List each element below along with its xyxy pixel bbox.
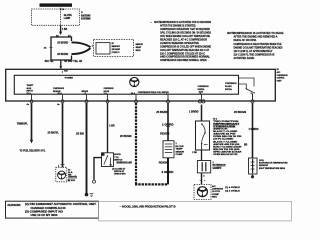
hood switch text — [114, 154, 132, 164]
wire 1 BK with arrow — [59, 25, 62, 35]
wire 25 BK/YL to horn — [62, 103, 64, 167]
pin 10 — [61, 8, 65, 11]
annotation: A/C compressor control unit — [277, 69, 288, 82]
svg-text:25 BK/RD: 25 BK/RD — [57, 54, 68, 56]
receiver drier — [197, 161, 210, 173]
svg-text:SEAT: SEAT — [136, 46, 142, 49]
A/C pressure temperature switch — [196, 121, 210, 150]
connector labels 41 / 45 — [56, 35, 71, 38]
svg-text:TO FUEL DELIVERY SYS.: TO FUEL DELIVERY SYS. — [20, 151, 46, 153]
receiver drier text — [213, 162, 226, 169]
svg-text:COIL: COIL — [259, 160, 265, 162]
pin 2 evap — [251, 93, 254, 103]
memory module text — [112, 43, 121, 54]
svg-text:25 BK/RD: 25 BK/RD — [57, 42, 68, 44]
label 1 GN/RD tick — [249, 128, 259, 131]
svg-text:1 BR: 1 BR — [109, 125, 115, 127]
connector below evap sensor — [251, 174, 254, 178]
svg-text:LAMP: LAMP — [64, 17, 71, 20]
svg-text:AND COMPRESSOR RESUMES NORMAL: AND COMPRESSOR RESUMES NORMAL — [160, 55, 210, 59]
svg-text:10 A: 10 A — [57, 92, 62, 95]
svg-text:USE 10 OF MY 0000: USE 10 OF MY 0000 — [31, 215, 59, 217]
hood switch note — [112, 167, 126, 175]
svg-text:120 C (248 F). AT APPROXIMATEL: 120 C (248 F). AT APPROXIMATELY — [234, 49, 273, 53]
svg-text:CHANGED COMP/BLAH 00: CHANGED COMP/BLAH 00 — [31, 207, 67, 210]
tick 4X on left bar — [44, 47, 53, 50]
svg-text:25 BK: 25 BK — [76, 134, 84, 136]
svg-text:COMP: COMP — [212, 194, 220, 196]
svg-text:ABOVE 435 PSI (30: ABOVE 435 PSI (30 — [213, 143, 240, 146]
svg-text:25 BK/GN: 25 BK/GN — [234, 112, 246, 114]
pin 30A — [131, 92, 138, 103]
svg-text:1 GN/RD: 1 GN/RD — [249, 129, 259, 131]
evaporator sensor text — [259, 160, 288, 170]
A/C compressor clutch — [194, 184, 211, 199]
wire to hood switch — [107, 103, 109, 153]
svg-text:AFTER THE ENGINE AND REMOVED A: AFTER THE ENGINE AND REMOVED A — [234, 35, 278, 39]
svg-text:HOOD: HOOD — [114, 154, 121, 156]
svg-text:13 A: 13 A — [26, 92, 31, 95]
svg-text:COMPRESSOR: COMPRESSOR — [277, 75, 288, 77]
svg-text:DIGITAL: DIGITAL — [198, 88, 206, 91]
svg-text:SENSOR: SENSOR — [176, 151, 185, 153]
annotation right of lamp box — [81, 12, 91, 20]
evaporator temperature sensor — [249, 158, 258, 174]
svg-text:ALM: ALM — [27, 87, 32, 90]
svg-text:CONTROL: CONTROL — [277, 78, 286, 80]
svg-text:AFTER THE ENGINE IS STARTED.: AFTER THE ENGINE IS STARTED. — [160, 24, 196, 28]
wire to pressure switch — [201, 105, 203, 121]
svg-text:COMPRESSOR: COMPRESSOR — [212, 189, 223, 191]
svg-text:MOD: MOD — [136, 50, 141, 52]
pin 1A — [104, 92, 109, 103]
label: lamp — [64, 15, 73, 20]
evaporator sensor wire — [252, 103, 254, 158]
svg-text:-- HOOD, 10/0, AIR PRODUCTION: -- HOOD, 10/0, AIR PRODUCTION PILOT B — [120, 205, 176, 208]
svg-text:TEMP: TEMP — [176, 149, 184, 151]
svg-text:ANTI-THEFT SYSTEM: ANTI-THEFT SYSTEM — [41, 4, 71, 8]
label compressor valve — [104, 88, 114, 93]
pin 10A — [57, 92, 64, 106]
wire below sensor — [167, 158, 169, 185]
svg-text:GLOVE: GLOVE — [64, 15, 73, 17]
label compressor digital — [198, 86, 209, 93]
pin 1 at band top — [59, 69, 68, 73]
memory inner module — [96, 43, 110, 54]
svg-text:BR: BR — [244, 144, 248, 146]
svg-text:TN/BK/PL: TN/BK/PL — [17, 124, 29, 126]
svg-text:25 BK/GN: 25 BK/GN — [120, 136, 132, 138]
pin 4 double connector — [198, 92, 205, 103]
wire junction to control unit — [60, 60, 62, 68]
hood temperature switch — [102, 153, 114, 167]
svg-text:45 BK/ YEL 4X: 45 BK/ YEL 4X — [64, 60, 83, 63]
svg-text:COMPRESSOR: COMPRESSOR — [225, 83, 237, 85]
pin 2 below switch — [192, 150, 201, 161]
svg-text:UNIT: UNIT — [277, 80, 283, 82]
labels 4 GY/BK — [225, 186, 240, 193]
annotation right of memory box — [136, 44, 144, 52]
svg-text:COOLANT TEMPERATURE REACHES 11: COOLANT TEMPERATURE REACHES 119 C AT — [160, 48, 209, 52]
label compressor flash digital — [225, 83, 237, 91]
svg-text:SPEC ABOVE 32 BAR: SPEC ABOVE 32 BAR — [213, 150, 242, 153]
svg-text:RD/GN: RD/GN — [159, 163, 168, 165]
note block 2 — [227, 31, 284, 60]
production note box — [99, 202, 292, 221]
bottom labels BK/YEL — [45, 60, 83, 63]
svg-text:COMPRESSOR: COMPRESSOR — [104, 88, 114, 90]
svg-text:BLACK 7: CLOSED: BLACK 7: CLOSED — [213, 130, 238, 133]
svg-text:ALWAYS REMAINS OPERATIVE: ALWAYS REMAINS OPERATIVE — [160, 41, 199, 45]
svg-text:MEMORY: MEMORY — [112, 46, 121, 48]
svg-text:SW SEAT: SW SEAT — [112, 48, 121, 51]
svg-text:A/C: A/C — [212, 185, 216, 188]
label theft alarm input — [27, 85, 35, 93]
svg-text:1 GN/RD: 1 GN/RD — [162, 124, 174, 126]
alarm horn symbol — [58, 171, 66, 179]
wire to compressor — [200, 173, 206, 185]
svg-text:COMPRESSOR RESUMES NORMAL OPER: COMPRESSOR RESUMES NORMAL OPER. — [160, 58, 207, 62]
svg-text:FLASH: FLASH — [225, 85, 232, 88]
svg-text:25 BK/YL: 25 BK/YL — [48, 133, 60, 135]
internal switch at right of control unit — [239, 78, 256, 100]
svg-text:BK/ YEL: BK/ YEL — [45, 61, 55, 63]
svg-text:OPEN 50 MPH: OPEN 50 MPH — [114, 173, 126, 175]
shield wire from pin 30A — [135, 103, 168, 184]
label compressor release — [53, 88, 64, 93]
ground wire BR — [86, 103, 88, 193]
svg-text:COMPRESSOR: COMPRESSOR — [53, 88, 64, 90]
svg-text:SENSOR: SENSOR — [259, 165, 268, 167]
svg-text:30 A: 30 A — [131, 92, 136, 95]
svg-text:(1) 4 GY/BLK: (1) 4 GY/BLK — [225, 186, 240, 189]
svg-text:EVAP TEMPERATURE SENS: EVAP TEMPERATURE SENS — [259, 167, 286, 170]
svg-text:COMP: COMP — [176, 154, 184, 156]
svg-text:--: -- — [150, 21, 152, 24]
svg-text:RD/GN: RD/GN — [160, 133, 169, 135]
sensor circuit wire — [167, 103, 169, 141]
svg-text:110 C COMPRESSOR CYCLES AT 114: 110 C COMPRESSOR CYCLES AT 114 C — [160, 51, 205, 55]
junction connector frame — [51, 37, 91, 60]
svg-text:(4) 4 GY/BLK: (4) 4 GY/BLK — [225, 190, 240, 193]
svg-text:DEICE OF 100 RPM.: DEICE OF 100 RPM. — [234, 38, 257, 42]
dashed box: memory module — [94, 39, 134, 56]
svg-text:MEMORY: MEMORY — [136, 44, 144, 46]
wire TN/BK/PL to fuel delivery — [30, 103, 33, 144]
svg-text:CLUTCH: CLUTCH — [212, 191, 220, 193]
label 1 GN/RD — [162, 124, 174, 126]
svg-text:COMPRESSOR IS ACTIVATED TO DEI: COMPRESSOR IS ACTIVATED TO DEICE — [234, 31, 284, 35]
svg-text:1 BK: 1 BK — [62, 29, 68, 31]
svg-text:COMPRESSOR IS ACTIVATED FOR 10: COMPRESSOR IS ACTIVATED FOR 10 SECONDS — [160, 20, 211, 24]
svg-text:2 RD: 2 RD — [192, 152, 197, 154]
svg-text:1 A: 1 A — [104, 92, 108, 95]
svg-text:REACHES 110 C, AT 4 C COMPRESS: REACHES 110 C, AT 4 C COMPRESSOR — [160, 37, 207, 41]
ground terminal W10 — [85, 193, 94, 197]
revision entries — [25, 203, 97, 217]
MB star logo — [130, 77, 139, 86]
svg-text:ACTIVATED AGAIN.: ACTIVATED AGAIN. — [234, 56, 255, 60]
hood switch ground link — [93, 158, 102, 184]
pin 1 sensor — [166, 93, 170, 103]
pin 13A — [26, 92, 33, 106]
svg-text:4 GN/RD: 4 GN/RD — [161, 171, 173, 174]
dashed box: glove compartment lamp L1 — [32, 9, 80, 25]
svg-text:25 BK/RD: 25 BK/RD — [156, 112, 168, 114]
svg-text:BAR) 7 CLOSED AGAIN: BAR) 7 CLOSED AGAIN — [213, 145, 242, 148]
svg-text:(3) COMPARED INPUT NO: (3) COMPARED INPUT NO — [25, 210, 63, 213]
header label: glove box lamp title bar — [40, 3, 73, 7]
alarm horn text — [68, 169, 77, 182]
labels 25 BK/RD — [57, 42, 68, 56]
alarm horn dashed box — [56, 167, 67, 182]
in-car temp sensor — [163, 141, 174, 158]
svg-text:1 BR/RD: 1 BR/RD — [189, 111, 199, 113]
svg-text:OFF) WHEN ENGINE COOLANT TEMPE: OFF) WHEN ENGINE COOLANT TEMPERATURE — [160, 34, 210, 38]
svg-text:A/C: A/C — [277, 71, 281, 74]
svg-text:COMPRESSOR OPERATION THAT IS R: COMPRESSOR OPERATION THAT IS REQUIRED — [160, 27, 210, 31]
svg-text:REVISIONS: REVISIONS — [8, 205, 21, 207]
compressor text — [212, 185, 223, 199]
svg-text:ALA: ALA — [68, 171, 73, 174]
svg-text:COMPRESSOR FIELD COIL SWITCH: COMPRESSOR FIELD COIL SWITCH — [138, 92, 169, 94]
svg-text:ABOVE 32 PSI: ABOVE 32 PSI — [213, 133, 236, 136]
svg-text:POWER: POWER — [65, 78, 74, 80]
svg-text:OPEN BELOW 30 PSI: OPEN BELOW 30 PSI — [213, 154, 237, 156]
svg-text:THEFT: THEFT — [27, 85, 35, 87]
svg-text:COMPRESSOR IS CYCLED OFF WHEN: COMPRESSOR IS CYCLED OFF WHEN ENGINE — [160, 44, 211, 48]
svg-text:ENGINE COOLANT TEMPERATURE REA: ENGINE COOLANT TEMPERATURE REACHES — [234, 45, 283, 49]
control unit inner box — [14, 75, 238, 94]
svg-text:COMPRESSOR IS DEACTIVATED WHEN: COMPRESSOR IS DEACTIVATED WHEN THE — [234, 42, 282, 46]
pin 8 — [85, 93, 88, 103]
pressure switch text — [213, 118, 242, 156]
svg-text:EVAPORATOR TEMPERATURE: EVAPORATOR TEMPERATURE — [259, 162, 288, 165]
horn pin 1 — [58, 165, 65, 168]
svg-text:110 C (230 F), THE COMPRESSOR: 110 C (230 F), THE COMPRESSOR IS — [234, 53, 275, 57]
svg-text:DIGITAL: DIGITAL — [225, 88, 233, 91]
svg-text:OPS, CYCLING (30 SECONDS ON /: OPS, CYCLING (30 SECONDS ON / 30 SECONDS — [160, 31, 211, 35]
note block 1 — [150, 20, 211, 62]
svg-text:IN CAR: IN CAR — [176, 145, 184, 148]
lamp internal wire — [60, 9, 62, 25]
revisions box — [6, 201, 99, 218]
svg-text:(2) P/N 1298203097 AUTOMATIC C: (2) P/N 1298203097 AUTOMATIC CONTROL UNI… — [25, 203, 97, 206]
svg-text:BLACK 7: CLOSED: BLACK 7: CLOSED — [213, 140, 238, 143]
svg-text:T4X: T4X — [64, 70, 68, 73]
A/C compressor control unit outer box — [6, 69, 276, 101]
svg-text:CONN C: CONN C — [112, 52, 120, 54]
sensor text — [176, 143, 185, 156]
